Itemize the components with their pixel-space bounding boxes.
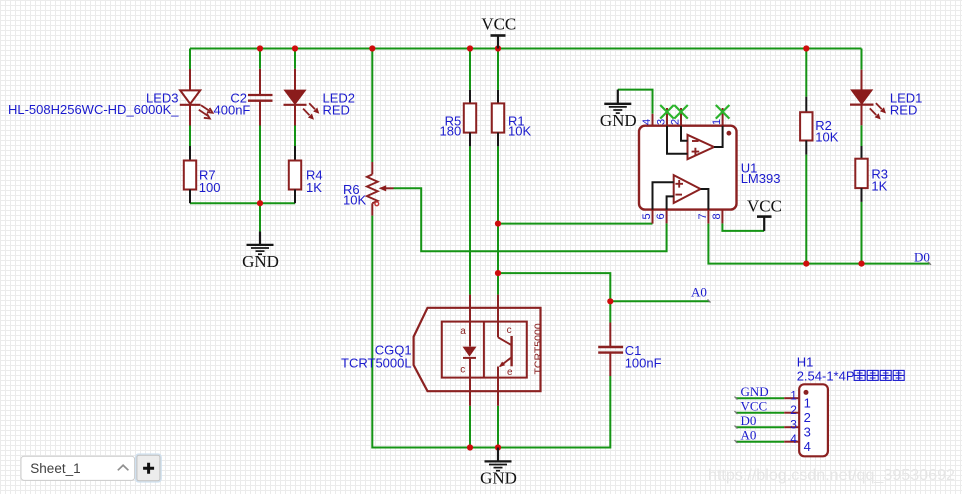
junction bbox=[495, 270, 501, 276]
power flag VCC at U1 pin8 bbox=[747, 197, 782, 231]
op-amp U1 LM393 bbox=[639, 108, 737, 224]
junction bbox=[607, 298, 613, 304]
svg-text:TCRT5000: TCRT5000 bbox=[533, 323, 545, 374]
svg-text:D0: D0 bbox=[914, 250, 930, 265]
svg-text:VCC: VCC bbox=[747, 197, 782, 216]
junction bbox=[495, 221, 501, 227]
svg-text:10K: 10K bbox=[815, 130, 838, 145]
pin 1 H1 bbox=[784, 397, 799, 399]
svg-text:1: 1 bbox=[711, 119, 723, 125]
no-connect flag bbox=[660, 105, 674, 119]
wire bbox=[189, 126, 191, 147]
svg-text:4: 4 bbox=[790, 432, 797, 446]
junction bbox=[292, 45, 298, 51]
svg-text:H1: H1 bbox=[797, 354, 814, 369]
svg-text:4: 4 bbox=[804, 439, 811, 454]
potentiometer R6 bbox=[367, 162, 394, 216]
wire bbox=[805, 49, 807, 97]
junction bbox=[257, 45, 263, 51]
wire bbox=[189, 49, 191, 70]
svg-text:RED: RED bbox=[323, 103, 350, 118]
svg-text:D0: D0 bbox=[741, 413, 757, 428]
svg-text:8: 8 bbox=[711, 213, 723, 219]
svg-text:100nF: 100nF bbox=[625, 356, 662, 371]
pin 3 H1 bbox=[784, 426, 799, 428]
wire bbox=[394, 188, 667, 251]
capacitor C1 bbox=[598, 323, 623, 377]
wire bbox=[259, 126, 261, 204]
wire bbox=[497, 146, 499, 294]
svg-text:3: 3 bbox=[655, 119, 667, 125]
svg-text:2.54-1*4P: 2.54-1*4P bbox=[797, 368, 855, 383]
wire bbox=[469, 406, 471, 448]
no-connect flag bbox=[674, 105, 688, 119]
resistor R4 bbox=[289, 146, 301, 203]
wire bbox=[861, 202, 863, 264]
resistor R7 bbox=[184, 146, 196, 203]
wire bbox=[618, 90, 653, 114]
svg-text:c: c bbox=[507, 325, 512, 336]
svg-text:RED: RED bbox=[890, 102, 917, 117]
capacitor C2 bbox=[248, 69, 273, 126]
svg-text:https://blog.csdn.net/qq_39530: https://blog.csdn.net/qq_39530692 bbox=[708, 466, 955, 484]
svg-text:10K: 10K bbox=[508, 124, 531, 139]
wire VCC top rail bbox=[190, 48, 862, 50]
svg-text:3: 3 bbox=[804, 424, 811, 439]
svg-text:5: 5 bbox=[641, 213, 653, 219]
svg-text:2: 2 bbox=[804, 410, 811, 425]
wire bbox=[498, 273, 610, 301]
junction bbox=[858, 261, 864, 267]
svg-text:GND: GND bbox=[480, 468, 517, 487]
connector H1 bbox=[784, 384, 828, 456]
svg-text:2: 2 bbox=[790, 403, 797, 417]
LED LED3 bbox=[180, 69, 213, 126]
svg-text:4: 4 bbox=[641, 119, 653, 125]
LED LED2 bbox=[284, 69, 320, 126]
wire bbox=[609, 301, 611, 322]
resistor R2 bbox=[800, 97, 812, 155]
junction bbox=[803, 45, 809, 51]
resistor R5 bbox=[464, 90, 476, 146]
svg-text:VCC: VCC bbox=[481, 15, 516, 34]
wire bbox=[736, 397, 784, 399]
svg-text:400nF: 400nF bbox=[214, 102, 251, 117]
wire bbox=[259, 49, 261, 69]
svg-text:1: 1 bbox=[790, 389, 797, 403]
pin 4 H1 bbox=[784, 441, 799, 443]
svg-text:e: e bbox=[507, 367, 513, 378]
no-connect flag bbox=[716, 105, 730, 119]
resistor R3 bbox=[855, 146, 867, 202]
junction bbox=[803, 261, 809, 267]
junction bbox=[495, 444, 501, 450]
svg-text:GND: GND bbox=[242, 252, 279, 271]
svg-text:c: c bbox=[460, 365, 465, 376]
svg-text:a: a bbox=[460, 326, 466, 337]
wire bbox=[371, 49, 373, 163]
junction bbox=[467, 45, 473, 51]
svg-text:A0: A0 bbox=[691, 285, 707, 300]
new sheet button bbox=[136, 454, 161, 482]
junction bbox=[495, 45, 501, 51]
wire bbox=[469, 146, 471, 294]
ground GND bottom bbox=[480, 448, 517, 488]
wire bbox=[722, 223, 764, 231]
svg-text:1K: 1K bbox=[871, 178, 887, 193]
optical sensor CGQ1 TCRT5000L bbox=[414, 295, 545, 406]
wire A0 net bbox=[610, 300, 709, 302]
svg-text:GND: GND bbox=[600, 111, 637, 130]
power flag VCC top bbox=[481, 15, 516, 49]
svg-text:2: 2 bbox=[669, 119, 681, 125]
sheet tab Sheet_1 bbox=[21, 456, 135, 480]
LED LED1 bbox=[850, 70, 886, 126]
svg-text:1K: 1K bbox=[306, 180, 322, 195]
junction bbox=[467, 444, 473, 450]
svg-text:10K: 10K bbox=[343, 193, 366, 208]
wire bbox=[497, 49, 499, 90]
wire bbox=[259, 203, 261, 231]
wire bbox=[190, 202, 295, 204]
ground GND left bbox=[242, 232, 279, 271]
svg-text:HL-508H256WC-HD_6000K_: HL-508H256WC-HD_6000K_ bbox=[8, 102, 179, 117]
ground GND at U1 pin4 bbox=[600, 90, 637, 130]
wire bbox=[469, 49, 471, 90]
wire D0 net bbox=[708, 224, 929, 264]
junction bbox=[369, 45, 375, 51]
wire bbox=[498, 223, 653, 225]
svg-text:3: 3 bbox=[790, 418, 797, 432]
wire bbox=[861, 49, 863, 70]
svg-text:180: 180 bbox=[439, 124, 461, 139]
svg-text:1: 1 bbox=[804, 395, 811, 410]
wire bbox=[805, 155, 807, 264]
svg-text:A0: A0 bbox=[741, 427, 757, 442]
wire bbox=[861, 125, 863, 146]
wire bbox=[736, 441, 784, 443]
svg-text:TCRT5000L: TCRT5000L bbox=[341, 356, 412, 371]
wire bbox=[736, 426, 784, 428]
resistor R1 bbox=[492, 90, 504, 146]
wire bbox=[294, 126, 296, 147]
wire bbox=[294, 49, 296, 69]
svg-text:6: 6 bbox=[655, 213, 667, 219]
wire GND bottom rail bbox=[372, 216, 610, 448]
svg-text:GND: GND bbox=[741, 384, 769, 399]
junction bbox=[257, 200, 263, 206]
wire bbox=[497, 406, 499, 448]
pin 2 H1 bbox=[784, 412, 799, 414]
svg-text:100: 100 bbox=[199, 180, 221, 195]
svg-text:Sheet_1: Sheet_1 bbox=[30, 461, 80, 476]
svg-text:VCC: VCC bbox=[741, 398, 768, 413]
wire bbox=[736, 412, 784, 414]
svg-text:7: 7 bbox=[697, 213, 709, 219]
svg-text:LM393: LM393 bbox=[741, 171, 781, 186]
